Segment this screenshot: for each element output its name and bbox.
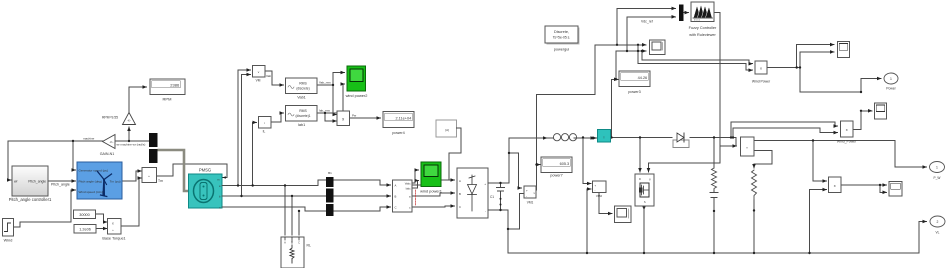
svg-text:Fuzzy Controller: Fuzzy Controller <box>689 26 717 30</box>
wire turbine Tm to Tm gain <box>122 171 142 181</box>
display power7 <box>541 157 572 178</box>
svg-text:C: C <box>459 205 461 209</box>
junction dots right <box>535 44 881 255</box>
dc main line to boost <box>509 138 549 183</box>
wire VI measurement outputs to scope <box>412 170 419 183</box>
svg-text:B: B <box>291 241 293 245</box>
powergui block <box>545 26 580 52</box>
Tm product block <box>142 168 163 184</box>
wire riser line2 to product in2 <box>733 128 838 138</box>
dc link plus rail <box>488 94 597 253</box>
VM1 minus return <box>508 194 524 230</box>
svg-text:-: - <box>595 189 596 193</box>
svg-text:A: A <box>459 179 461 183</box>
svg-text:605.3: 605.3 <box>560 162 570 166</box>
wire RMS Vab1 to scope and product <box>317 84 333 86</box>
svg-text:-K-: -K- <box>110 140 114 144</box>
wire current meas up and to scope <box>612 51 647 138</box>
bottom ground rail <box>508 252 919 254</box>
wire mosfet drain <box>639 138 641 173</box>
wire VI to rectifier A B C <box>412 180 455 185</box>
inductor boost <box>549 134 581 141</box>
svg-text:Wind: Wind <box>4 239 13 243</box>
wire demux to gain input <box>115 140 149 142</box>
svg-text:RMS: RMS <box>299 82 307 86</box>
wire constant 1.2e06 to base torque divide <box>96 228 107 230</box>
svg-text:+: + <box>484 182 486 186</box>
wire riser to mux input 1 <box>617 8 676 44</box>
wire tap to voltage measurement Vab <box>238 70 251 186</box>
gain RPM conversion <box>102 113 136 125</box>
svg-text:power3: power3 <box>628 90 640 94</box>
mux for fuzzy inputs <box>679 5 684 22</box>
product2 <box>829 177 842 193</box>
wire IL to RMS Iab1 <box>271 113 284 122</box>
wire VM2 minus to rail <box>587 189 591 253</box>
wire taps down to RL load <box>284 186 286 236</box>
svg-text:VM: VM <box>256 79 261 83</box>
three phase series RL load <box>281 237 311 268</box>
arrow into inductor <box>544 137 547 139</box>
gain -K- machine speed <box>100 135 115 157</box>
svg-text:÷: ÷ <box>112 229 114 233</box>
wire constant 30000 to base torque divide <box>96 214 108 222</box>
junction dots on wr wire <box>72 140 74 142</box>
wind step source block <box>3 219 14 243</box>
wire phase c <box>222 207 391 211</box>
wire product2 to scope4 <box>841 184 887 186</box>
PMSG machine block <box>189 168 223 210</box>
voltage measurement VM block <box>253 66 272 83</box>
wire VM2 to scope5 <box>599 192 612 214</box>
svg-text:-: - <box>485 209 486 213</box>
wire wind step to turbine <box>11 190 76 227</box>
wire up to oval power <box>861 79 881 93</box>
svg-text:Generator speed (pu): Generator speed (pu) <box>79 169 109 173</box>
svg-text:Iab1: Iab1 <box>298 123 305 127</box>
wire goto tag down to phase a <box>449 128 461 179</box>
VM1 output to display power7 <box>535 94 538 190</box>
svg-text:VM1: VM1 <box>527 201 534 205</box>
wire RPM gain to RPM display <box>129 87 147 112</box>
svg-text:GAIN-N1: GAIN-N1 <box>100 152 115 156</box>
svg-text:+: + <box>526 189 528 193</box>
diode symbol inside <box>468 175 477 211</box>
outport oval Power <box>884 73 898 91</box>
wire RMS Iab1 to scope and product <box>317 112 325 114</box>
mosfet switch block <box>635 174 654 206</box>
svg-text:0 0.5 1: 0 0.5 1 <box>694 19 701 21</box>
wire rail riser to product2 in2 <box>810 190 827 253</box>
wire block B lower port U to R2 <box>754 151 772 168</box>
wire pwm block B output long line to oval1 <box>754 141 927 168</box>
wire vdc from VM1 up to scope line <box>537 45 647 95</box>
svg-text:A: A <box>284 241 286 245</box>
svg-text:(discrete)1: (discrete)1 <box>295 114 310 118</box>
svg-text:C: C <box>298 241 300 245</box>
wire wr branch to turbine generator-speed input <box>72 141 74 170</box>
right side wires <box>508 8 927 253</box>
constant 1.2e06 <box>74 225 96 234</box>
svg-text:with Ruleviewer: with Ruleviewer <box>689 33 716 37</box>
wire phase b <box>222 195 391 197</box>
svg-text:x: x <box>834 184 836 188</box>
svg-text:x: x <box>846 128 848 132</box>
pwm measurement block B <box>741 137 755 156</box>
svg-text:wind power2: wind power2 <box>346 93 368 98</box>
wire drop to product wind power input2 <box>638 45 753 70</box>
svg-text:RMS: RMS <box>299 109 307 113</box>
RMS discrete block Iab1 <box>286 106 318 128</box>
svg-text:[A]: [A] <box>445 128 449 132</box>
svg-text:x: x <box>112 222 114 226</box>
base torque divide block <box>102 219 125 241</box>
scope5 near mosfet <box>615 206 632 223</box>
RMS discrete block Vab1 <box>286 78 318 100</box>
wire VM2 plus tap to dc line <box>583 138 591 184</box>
universal bridge rectifier <box>457 168 488 218</box>
svg-text:A: A <box>395 184 397 188</box>
wire product wind_power to scope3 <box>853 111 872 130</box>
boost diode <box>673 133 689 148</box>
display power4 <box>383 112 414 136</box>
constant 30000 <box>74 210 96 219</box>
svg-text:Pw: Pw <box>352 114 357 118</box>
svg-text:44.26: 44.26 <box>638 76 648 80</box>
svg-text:(discrete): (discrete) <box>296 87 309 91</box>
wire Tm gain to PMSG torque input <box>157 164 228 178</box>
svg-text:Discrete,: Discrete, <box>554 30 569 34</box>
svg-text:wind power1: wind power1 <box>420 189 442 194</box>
capacitor C1 branch <box>500 183 502 187</box>
outport oval 2 <box>930 216 945 235</box>
svg-text:Pitch angle (deg): Pitch angle (deg) <box>79 179 102 183</box>
svg-text:Vdc_ref: Vdc_ref <box>641 20 653 24</box>
demux bus selector <box>149 133 158 163</box>
wire R1 branch <box>713 138 715 169</box>
wire branch up to RPM gain <box>128 127 130 141</box>
svg-text:2: 2 <box>937 220 939 224</box>
voltage measurement VM1 <box>524 186 536 205</box>
scope wind power1 <box>420 162 442 194</box>
wire tap to current measurement IL <box>253 122 257 185</box>
svg-text:power4: power4 <box>392 131 404 135</box>
wire mux to fuzzy controller <box>684 12 689 14</box>
wire base torque to Tm gain <box>121 178 142 226</box>
wire product wind power out <box>767 67 797 69</box>
svg-text:Pitch_angle controller1: Pitch_angle controller1 <box>9 197 52 202</box>
svg-text:VM2: VM2 <box>596 194 603 198</box>
junction dots three phase <box>237 84 334 212</box>
wire product to display power4 <box>350 117 381 119</box>
svg-text:Vab_rms: Vab_rms <box>319 81 331 85</box>
svg-text:Pitch_angle: Pitch_angle <box>28 180 46 184</box>
fuzzy controller block <box>689 2 717 37</box>
wire VM to RMS Vab1 <box>265 71 284 85</box>
svg-text:1: 1 <box>936 166 938 170</box>
dc link minus rail <box>488 210 508 253</box>
svg-text:S: S <box>644 200 646 204</box>
svg-text:Tm: Tm <box>158 179 163 183</box>
svg-text:D: D <box>639 177 641 181</box>
scope4 <box>889 182 902 197</box>
wire mosfet source down to rail <box>643 206 645 210</box>
red measurement dashed wire <box>415 190 417 206</box>
svg-text:machine: machine <box>83 137 95 141</box>
svg-text:B: B <box>395 195 397 199</box>
svg-text:Iab_rms: Iab_rms <box>319 109 330 113</box>
breaker bus bar B1 <box>326 171 334 216</box>
svg-text:Wind Power: Wind Power <box>752 80 771 84</box>
svg-text:Iabc: Iabc <box>406 187 412 191</box>
svg-text:Tm (pu): Tm (pu) <box>110 179 121 183</box>
svg-text:RPM=9.55: RPM=9.55 <box>102 116 118 120</box>
svg-text:1.2e06: 1.2e06 <box>79 228 91 232</box>
wire into display power3 <box>616 78 618 80</box>
svg-text:B1: B1 <box>328 171 332 175</box>
three phase VI measurement block <box>393 180 413 212</box>
wire riser to wind_power product line1 <box>731 122 838 138</box>
product wind power <box>752 61 771 84</box>
wire pitch controller output to turbine <box>48 180 76 182</box>
vertical to VM1 plus <box>509 153 522 188</box>
svg-text:B: B <box>459 192 461 196</box>
scope3 <box>875 103 887 119</box>
svg-text:Vab: Vab <box>266 74 271 78</box>
svg-text:Pitch_angle: Pitch_angle <box>51 183 70 187</box>
goto tag block <box>436 120 457 137</box>
outport oval 1 P_W <box>930 162 945 181</box>
scope vdc <box>650 40 666 55</box>
svg-text:C: C <box>395 206 397 210</box>
wire teal block to diode <box>611 137 673 139</box>
pitch angle controller block <box>9 166 52 202</box>
wire riser to mux input 2 <box>627 17 676 51</box>
svg-text:-K-: -K- <box>127 119 131 123</box>
svg-text:VL: VL <box>936 231 940 235</box>
scope wind power2 <box>346 66 368 98</box>
current measurement teal block <box>598 130 611 143</box>
svg-text:C1: C1 <box>490 195 494 199</box>
svg-text:RPM: RPM <box>163 97 172 102</box>
wire phase a <box>222 180 391 186</box>
wire diode to junctions <box>690 138 736 147</box>
turbine icon <box>98 172 112 197</box>
svg-text:2.11e+04: 2.11e+04 <box>396 117 412 121</box>
svg-text:Wind speed (m/s): Wind speed (m/s) <box>79 190 103 194</box>
wire fuzzy output down to gate and pwm block <box>649 13 721 172</box>
scope6 top right <box>838 41 850 57</box>
svg-text:Vab1: Vab1 <box>297 96 306 100</box>
wire drop to product wind power input1 <box>642 51 753 64</box>
svg-text:P_W: P_W <box>934 176 941 180</box>
svg-text:x: x <box>760 67 762 71</box>
product block Pw <box>337 111 350 126</box>
svg-text:Base Torque1: Base Torque1 <box>102 237 125 241</box>
resistor R1 zigzag <box>712 168 717 190</box>
svg-text:-: - <box>526 194 527 198</box>
svg-text:powergui: powergui <box>554 48 570 52</box>
svg-text:IL: IL <box>263 130 266 134</box>
svg-text:power7: power7 <box>550 174 562 178</box>
wind turbine block <box>77 162 122 199</box>
svg-text:Power: Power <box>886 87 896 91</box>
product wind_power <box>837 121 857 144</box>
thick measurement bus from demux to PMSG <box>158 150 189 191</box>
svg-text:2386: 2386 <box>170 83 180 88</box>
three phase wires PMSG to measurement <box>222 70 455 235</box>
voltage measurement VM2 <box>593 181 607 198</box>
svg-text:wr machine wr (rad/s): wr machine wr (rad/s) <box>117 143 146 147</box>
svg-text:Ts=5e-05 s.: Ts=5e-05 s. <box>553 36 571 40</box>
svg-text:1: 1 <box>890 77 892 81</box>
current measurement IL block <box>259 117 272 134</box>
svg-text:RL: RL <box>307 244 311 248</box>
svg-text:Vabc: Vabc <box>405 182 411 186</box>
wire drop to product2 in1 <box>813 141 827 182</box>
svg-text:PMSG: PMSG <box>199 168 211 173</box>
wire wr feedback to pitch controller <box>8 87 227 229</box>
RPM display <box>150 79 185 102</box>
display power3 <box>619 71 650 94</box>
svg-text:30000: 30000 <box>79 213 90 217</box>
resistor R2 zigzag <box>752 170 757 200</box>
svg-text:Wind_Power: Wind_Power <box>837 140 857 144</box>
